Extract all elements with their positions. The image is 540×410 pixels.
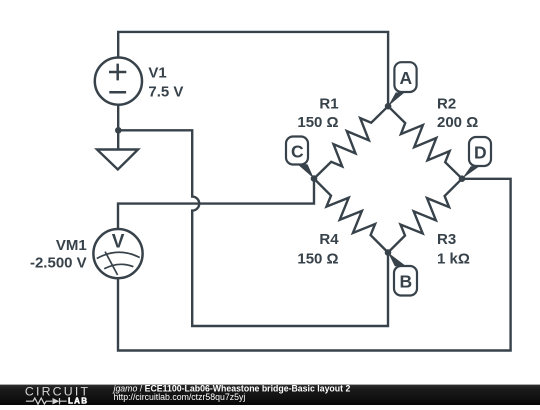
svg-text:200 Ω: 200 Ω [437, 114, 478, 131]
svg-text:http://circuitlab.com/ctzr58qu: http://circuitlab.com/ctzr58qu7z5yj [114, 392, 246, 402]
svg-text:A: A [399, 68, 412, 88]
svg-text:B: B [399, 272, 412, 292]
svg-text:VM1: VM1 [56, 237, 87, 254]
svg-text:C: C [291, 141, 304, 161]
svg-text:150 Ω: 150 Ω [297, 250, 338, 267]
svg-text:R2: R2 [437, 96, 456, 113]
svg-text:R1: R1 [319, 96, 338, 113]
svg-text:1 kΩ: 1 kΩ [437, 250, 470, 267]
svg-text:7.5 V: 7.5 V [148, 83, 183, 100]
svg-text:LAB: LAB [68, 396, 88, 405]
svg-text:V1: V1 [148, 65, 166, 82]
svg-text:R3: R3 [437, 231, 456, 248]
svg-text:-2.500 V: -2.500 V [30, 254, 87, 271]
svg-text:R4: R4 [319, 231, 339, 248]
svg-text:D: D [474, 142, 487, 162]
svg-text:V: V [112, 231, 125, 252]
svg-text:150 Ω: 150 Ω [297, 114, 338, 131]
